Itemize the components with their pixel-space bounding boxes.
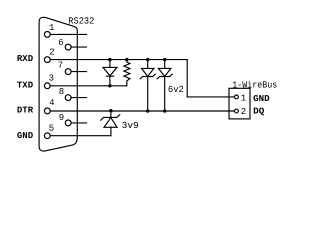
svg-text:1: 1 [241, 93, 246, 103]
svg-text:GND: GND [17, 131, 34, 141]
svg-text:6: 6 [58, 38, 63, 48]
svg-text:1: 1 [49, 23, 54, 33]
svg-text:2: 2 [241, 107, 246, 117]
svg-text:2: 2 [49, 47, 54, 57]
svg-text:8: 8 [59, 87, 64, 97]
svg-text:5: 5 [49, 124, 54, 134]
svg-text:1-WireBus: 1-WireBus [232, 80, 277, 91]
svg-text:RS232: RS232 [68, 16, 94, 27]
svg-text:6v2: 6v2 [168, 84, 184, 95]
svg-text:3: 3 [49, 73, 54, 83]
svg-text:DQ: DQ [253, 107, 265, 117]
svg-text:7: 7 [58, 61, 63, 71]
svg-text:9: 9 [59, 113, 64, 123]
svg-text:DTR: DTR [17, 106, 34, 116]
svg-text:RXD: RXD [17, 54, 34, 64]
svg-text:3v9: 3v9 [122, 120, 139, 131]
svg-text:4: 4 [49, 98, 54, 108]
svg-text:TXD: TXD [17, 80, 34, 90]
svg-text:GND: GND [253, 94, 270, 104]
